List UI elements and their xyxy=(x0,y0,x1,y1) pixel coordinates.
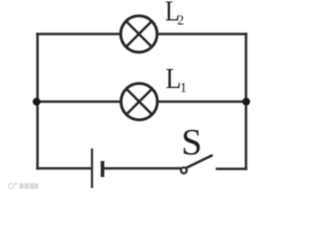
wire bottom-left segment to battery xyxy=(38,167,92,170)
wire right vertical xyxy=(245,34,248,169)
node right junction xyxy=(242,98,250,106)
lamp L2 xyxy=(121,16,157,52)
battery short plate (-) xyxy=(101,161,105,177)
wire middle-left segment to L1 xyxy=(38,100,120,103)
svg-text:2: 2 xyxy=(177,13,184,28)
wire middle-right segment from L1 xyxy=(159,100,246,103)
node left junction xyxy=(33,98,41,106)
wire left vertical xyxy=(36,34,39,168)
svg-text:S: S xyxy=(181,123,202,164)
lamp L1 xyxy=(121,83,157,119)
watermark logo xyxy=(9,183,39,189)
wire battery to switch xyxy=(104,167,181,170)
svg-text:1: 1 xyxy=(180,80,187,95)
switch blade xyxy=(186,156,212,169)
svg-text:L: L xyxy=(166,63,182,95)
switch S contact circle xyxy=(181,168,187,174)
battery long plate (+) xyxy=(91,149,93,189)
wire switch stub to right corner xyxy=(217,168,246,171)
wire top-right segment from L2 xyxy=(158,33,246,36)
wire top-left segment to L2 xyxy=(38,33,120,36)
